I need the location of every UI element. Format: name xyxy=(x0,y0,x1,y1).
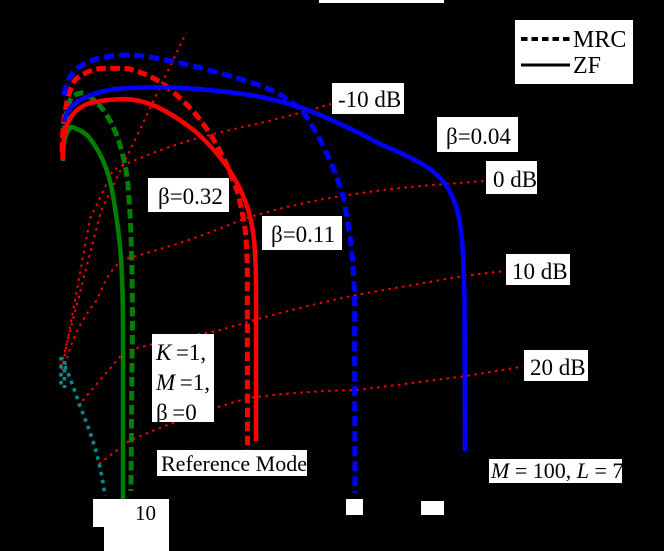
blue dashed MRC beta=0.04 xyxy=(64,55,355,493)
red dotted annotation fan xyxy=(61,33,523,464)
label 0 dB xyxy=(486,161,537,194)
red solid ZF beta=0.11 xyxy=(63,99,257,441)
label beta=0.32 xyxy=(148,178,229,212)
line B to -10dB xyxy=(62,104,331,370)
label beta=0.04 xyxy=(437,117,518,152)
label -10 dB xyxy=(332,83,404,114)
top cut-off strip xyxy=(319,0,444,3)
label beta=0.11 xyxy=(262,216,342,250)
legend xyxy=(515,20,633,84)
teal ZF reference curve (vertical) xyxy=(59,357,63,389)
label K=1, M=1, beta=0 xyxy=(152,334,214,422)
label M=100, L=7 xyxy=(489,459,622,483)
line E to 20dB xyxy=(99,367,523,465)
green solid ZF beta=0.32 xyxy=(63,127,123,499)
green dashed MRC beta=0.32 xyxy=(64,93,133,491)
teal reference curve tail xyxy=(65,366,105,496)
label 20 dB xyxy=(524,350,588,381)
svg-text:MRC: MRC xyxy=(573,27,626,53)
blue solid ZF beta=0.04 xyxy=(64,87,465,451)
tick fragment box 1 xyxy=(346,499,363,515)
label Reference Mode xyxy=(157,450,307,476)
teal reference-mode curves xyxy=(61,357,105,496)
x-axis label box fragment xyxy=(104,527,169,551)
tick text 10 xyxy=(135,503,156,524)
label 10 dB xyxy=(506,254,570,285)
line A steep (ends mid-air) xyxy=(61,33,186,366)
svg-text:ZF: ZF xyxy=(573,53,601,79)
red dashed MRC beta=0.11 xyxy=(62,68,248,450)
line D to 10dB xyxy=(78,271,505,406)
x-axis tick label box xyxy=(93,499,169,527)
tick fragment box 2 xyxy=(421,501,444,515)
line C to 0dB xyxy=(64,181,485,372)
teal MRC reference curve (vertical) xyxy=(63,361,67,388)
